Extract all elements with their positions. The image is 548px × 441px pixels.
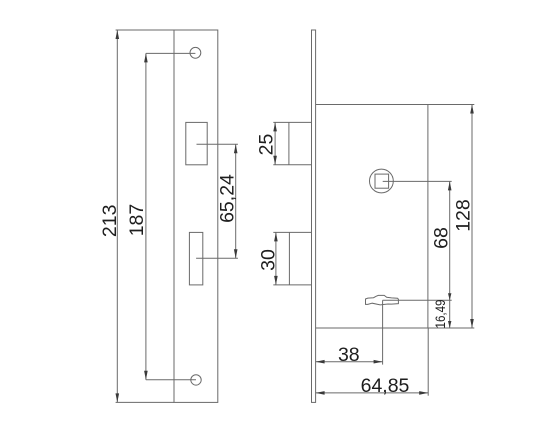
arrow 30 top: [274, 232, 278, 241]
dim 65,24 leader bottom: [196, 257, 238, 259]
top screw hole: [190, 47, 201, 58]
dim 213 extension top: [116, 29, 174, 31]
arrow 213 bottom: [116, 393, 120, 402]
latch bolt left edge: [288, 122, 290, 164]
dim 68 leader from spindle: [383, 180, 452, 182]
deadbolt bottom edge / 30 extension: [273, 284, 311, 286]
arrow 213 top: [116, 30, 120, 39]
arrow 30 bottom: [274, 276, 278, 285]
arrow 128 bottom: [470, 319, 474, 328]
arrow 65,24 top: [234, 144, 238, 153]
lock body top edge with 128 extension: [316, 104, 475, 106]
svg-text:68: 68: [430, 227, 452, 249]
svg-text:65,24: 65,24: [216, 174, 238, 223]
svg-text:38: 38: [338, 344, 360, 366]
arrow 187 bottom: [144, 371, 148, 380]
arrow 68 top: [448, 181, 452, 190]
arrow 38 left: [316, 360, 325, 364]
dim 68 and 16,49 line: [449, 181, 451, 328]
latch bolt top edge / 25 extension: [273, 121, 311, 123]
arrow 25 top: [273, 122, 277, 131]
arrow 64,85 left: [316, 391, 325, 395]
dim 128 line: [471, 105, 473, 329]
svg-text:25: 25: [256, 134, 278, 156]
arrow 68 bottom: [448, 293, 451, 300]
deadbolt cutout (lower): [189, 232, 202, 285]
dim 38 extension from keyhole center: [382, 300, 384, 364]
dim 30 line: [275, 232, 277, 285]
dim 213 line: [116, 30, 118, 402]
svg-text:64,85: 64,85: [361, 375, 410, 397]
latch bolt bottom edge / 25 extension: [273, 164, 311, 166]
arrow 64,85 right: [419, 391, 428, 395]
arrow 65,24 bottom: [234, 249, 238, 258]
lock body right edge: [427, 105, 429, 329]
dim 213 extension bottom: [116, 401, 174, 403]
bottom screw hole: [191, 375, 201, 385]
svg-text:16,49: 16,49: [432, 299, 448, 328]
svg-text:213: 213: [99, 205, 121, 238]
spindle square hole: [375, 174, 389, 188]
svg-text:30: 30: [258, 249, 280, 271]
arrow 187 top: [144, 53, 148, 62]
faceplate front view outline: [174, 30, 218, 402]
dim 65,24 leader top: [197, 143, 238, 145]
deadbolt left edge: [288, 232, 290, 285]
dim 64,85 right extension: [427, 328, 429, 396]
svg-text:187: 187: [126, 204, 148, 237]
dim 16,49 leader from keyhole: [383, 299, 452, 301]
arrow 128 top: [470, 105, 474, 114]
dim 38 line: [316, 361, 383, 363]
arrow 25 bottom: [273, 156, 277, 165]
keyhole bit profile: [366, 295, 399, 305]
deadbolt top edge / 30 extension: [273, 231, 311, 233]
dim 187 leader top: [146, 52, 196, 54]
spindle follower circle: [370, 169, 394, 193]
latch cutout (upper): [186, 122, 207, 164]
dim 187 leader bottom: [146, 379, 196, 381]
dim 64,85 line: [316, 392, 429, 394]
lock body bottom edge with 128 extension: [316, 327, 475, 329]
dim 187 line: [145, 53, 147, 379]
arrow 38 right: [374, 360, 383, 364]
svg-text:128: 128: [452, 199, 474, 232]
arrow 16,49 bottom: [448, 321, 451, 328]
dim 25 line: [274, 122, 276, 164]
faceplate edge view strip: [312, 30, 316, 402]
dim 65,24 line: [235, 144, 237, 258]
